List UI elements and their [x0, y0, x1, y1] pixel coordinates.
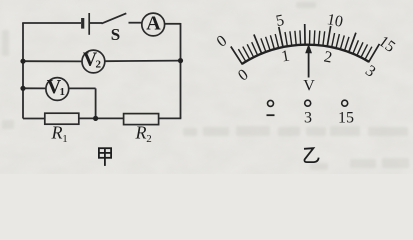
voltmeter V2 — [82, 50, 105, 73]
switch S — [102, 13, 127, 23]
wire middle drop — [95, 88, 97, 118]
terminal minus — [268, 100, 274, 106]
resistor R1 — [45, 113, 79, 124]
node V2 left — [20, 59, 25, 64]
wire bottom rail right — [159, 117, 182, 119]
wire V1 row left — [23, 87, 46, 89]
svg-text:V: V — [303, 78, 315, 95]
svg-text:1: 1 — [60, 86, 66, 98]
svg-text:2: 2 — [96, 59, 102, 71]
voltmeter V1 — [46, 78, 69, 101]
meter tick marks — [231, 24, 380, 65]
terminal 15 — [342, 100, 348, 106]
wire V1 to middle — [69, 87, 96, 89]
paper grain — [0, 0, 413, 174]
svg-text:2: 2 — [146, 133, 152, 145]
label 乙 (drawn) — [304, 148, 319, 162]
wire bottom rail left — [23, 118, 45, 120]
wire V2 row left — [23, 60, 82, 62]
resistor R2 — [124, 114, 159, 125]
svg-text:S: S — [111, 25, 120, 44]
wire top rail battery segment — [22, 22, 81, 24]
battery — [83, 13, 90, 35]
wire right rail — [180, 23, 182, 119]
label 甲 (drawn) — [99, 148, 111, 166]
svg-text:R: R — [51, 122, 63, 142]
svg-text:R: R — [135, 122, 147, 142]
ammeter A — [142, 13, 165, 36]
faint print-through (decorative, approximate) — [2, 2, 409, 170]
svg-text:3: 3 — [304, 109, 312, 126]
needle — [305, 44, 312, 78]
svg-text:A: A — [146, 13, 161, 35]
meter scale baseline arc — [242, 45, 369, 64]
wire V2 row right — [105, 60, 181, 63]
wire battery to switch — [89, 22, 102, 24]
wire switch to ammeter — [129, 22, 142, 24]
wire between resistors — [79, 117, 124, 119]
svg-text:15: 15 — [338, 109, 354, 126]
wire ammeter to right rail — [165, 23, 181, 25]
node R1-R2 junction — [93, 116, 98, 121]
wire left rail — [22, 23, 24, 119]
svg-text:10: 10 — [325, 11, 344, 31]
node V2 right — [178, 58, 183, 63]
terminal label minus — [267, 114, 275, 116]
svg-text:1: 1 — [62, 133, 68, 145]
node V1 left — [20, 86, 25, 91]
terminal 3 — [305, 100, 311, 106]
